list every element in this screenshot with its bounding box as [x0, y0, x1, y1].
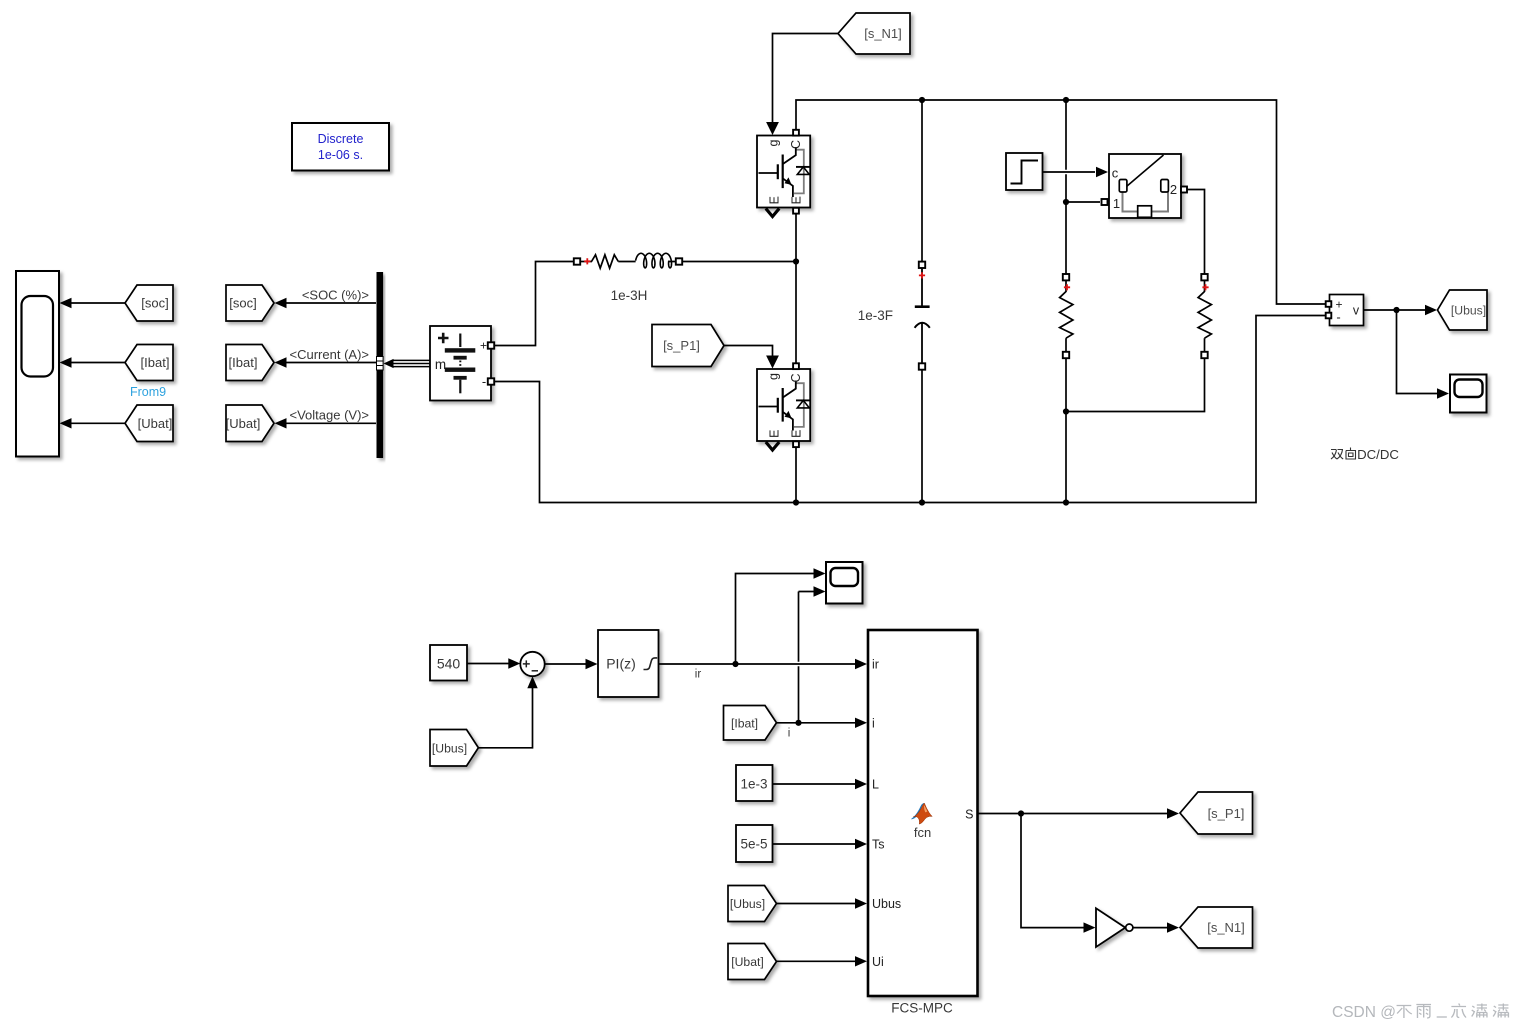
svg-text:1: 1: [1113, 196, 1120, 211]
svg-text:[Ibat]: [Ibat]: [731, 716, 758, 730]
goto tag [Ibat]: [226, 345, 274, 381]
wire: resistor 2 bottom return: [1066, 358, 1205, 412]
wire: resistor branch 1 vertical: [1065, 100, 1067, 274]
bus selector bar: [377, 272, 384, 458]
resistor R2: [1201, 274, 1207, 280]
port: V+: [1326, 301, 1332, 307]
svg-text:[Ibat]: [Ibat]: [141, 355, 170, 370]
capacitor 1e-3F: [919, 262, 925, 268]
svg-text:fcn: fcn: [914, 825, 931, 840]
svg-text:<Voltage (V)>: <Voltage (V)>: [290, 407, 370, 422]
from tag [s_P1] (drives lower IGBT): [652, 325, 724, 367]
wire: upper IGBT C to top bus: [796, 100, 1325, 304]
wire: [Ubus] to sum minus input: [478, 686, 532, 748]
port: lower IGBT E: [793, 441, 799, 447]
svg-text:m: m: [435, 357, 446, 372]
transistor lower IGBT/Diode: [757, 369, 811, 441]
svg-text:[Ubus]: [Ubus]: [432, 741, 467, 755]
node: i junction: [795, 720, 801, 726]
svg-text:Ubus: Ubus: [872, 897, 901, 911]
wire: from [s_N1] to upper IGBT gate: [773, 34, 839, 125]
svg-text:[s_P1]: [s_P1]: [663, 338, 700, 353]
wire: RL branch to half-bridge midpoint: [683, 261, 796, 263]
wire: to bus voltage scope: [1397, 310, 1440, 394]
goto tag [s_N1]: [1180, 907, 1253, 948]
svg-text:[Ubat]: [Ubat]: [138, 416, 173, 431]
svg-text:Discrete: Discrete: [318, 132, 364, 146]
logic NOT gate: [1096, 908, 1125, 947]
wire: ir branch to scope: [736, 574, 816, 665]
wire: [Ubat] to FCS-MPC Ui: [777, 960, 858, 962]
node: resistor return junction: [1063, 408, 1069, 414]
svg-text:[Ibat]: [Ibat]: [229, 355, 258, 370]
battery block: [430, 326, 491, 401]
wire: i branch to scope: [799, 591, 816, 593]
from tag [Ibat] (current feedback): [724, 706, 777, 741]
wire: lower IGBT E to bottom bus: [795, 447, 797, 503]
svg-text:[soc]: [soc]: [229, 296, 256, 311]
from tag [Ubat] (to controller): [728, 944, 777, 980]
svg-text:i: i: [788, 728, 791, 740]
wire: step to breaker control (with white casing over crossing): [1043, 170, 1096, 175]
from tag [s_N1] (top): [838, 13, 910, 54]
goto tag [soc]: [226, 285, 274, 321]
wire: [Ibat] i branch vertical (under ir wire): [798, 592, 800, 723]
constant 1e-3: [736, 765, 773, 801]
svg-text:<SOC (%)>: <SOC (%)>: [302, 288, 369, 303]
scope Scope (bus voltage): [1450, 375, 1487, 413]
wire: battery plus to inductor branch: [491, 262, 573, 346]
node: top bus resistor tap: [1063, 97, 1069, 103]
scope Scope1 (battery signals): [16, 271, 59, 457]
resistor R1: [1063, 274, 1069, 280]
wire: bus selector to goto [Ibat]: [284, 362, 376, 364]
wire: S branch to NOT gate: [1021, 814, 1085, 928]
step source block: [1006, 153, 1043, 190]
MATLAB function block FCS-MPC: [868, 630, 978, 996]
svg-text:ir: ir: [695, 669, 702, 681]
discrete powergui block: [292, 123, 389, 171]
svg-text:Ts: Ts: [872, 838, 885, 852]
wire: from [Ibat] to scope: [70, 362, 125, 364]
svg-text:c: c: [1112, 166, 1119, 181]
svg-text:Ui: Ui: [872, 955, 884, 969]
node: bottom bus resistor tap: [1063, 499, 1069, 505]
svg-text:[Ubus]: [Ubus]: [1451, 304, 1486, 318]
wire: 5e-5 to FCS-MPC Ts: [773, 843, 858, 845]
PI controller block: [598, 630, 659, 697]
svg-text:[Ubat]: [Ubat]: [731, 955, 764, 969]
wire: [Ibat] to FCS-MPC i: [777, 722, 858, 724]
wire: capacitor branch bottom: [921, 369, 923, 503]
wire: breaker input tap: [1066, 201, 1100, 203]
svg-text:5e-5: 5e-5: [740, 837, 767, 852]
svg-text:1e-3F: 1e-3F: [858, 308, 893, 323]
constant 5e-5: [736, 825, 773, 862]
svg-text:From9: From9: [130, 385, 166, 399]
scope Scope (ir and i): [826, 562, 863, 604]
goto tag [Ubat]: [226, 405, 274, 442]
svg-text:1e-3H: 1e-3H: [611, 288, 648, 303]
svg-text:-: -: [482, 374, 486, 389]
voltage measurement block: [1330, 295, 1364, 326]
from tag [Ubat] (to scope): [125, 405, 173, 442]
port: battery +: [488, 342, 494, 348]
upper IGBT unconnected m port chevron: [766, 209, 779, 217]
node: ir junction: [732, 661, 738, 667]
constant 540: [430, 645, 467, 681]
bus selector input marker: [377, 357, 384, 371]
port: breaker 2: [1181, 187, 1187, 193]
sum block: [520, 652, 544, 676]
node: Ubus output junction: [1393, 307, 1399, 313]
svg-text:DC/DC: DC/DC: [1357, 447, 1399, 462]
wire: FCS-MPC S output to [s_P1]: [978, 813, 1170, 815]
series RL branch 1e-3H: [574, 258, 580, 264]
wire: NOT gate to [s_N1]: [1133, 927, 1169, 929]
port: breaker 1: [1102, 199, 1108, 205]
node: bottom bus at half-bridge: [793, 499, 799, 505]
wire: voltage measurement output: [1364, 309, 1428, 311]
from tag [Ibat] (to scope): [125, 345, 173, 381]
svg-text:[Ubat]: [Ubat]: [226, 416, 261, 431]
wire: [Ubus] to FCS-MPC Ubus: [777, 903, 858, 905]
transistor upper IGBT/Diode: [757, 136, 811, 208]
port: lower IGBT C: [793, 363, 799, 369]
watermark CSDN: [1332, 1004, 1396, 1021]
from tag [soc] (to scope): [125, 285, 173, 321]
svg-text:[s_N1]: [s_N1]: [864, 26, 902, 41]
svg-text:PI(z): PI(z): [606, 656, 636, 672]
svg-text:<Current (A)>: <Current (A)>: [290, 347, 369, 362]
svg-text:[Ubus]: [Ubus]: [730, 897, 765, 911]
port: upper IGBT C: [793, 130, 799, 136]
svg-text:[s_N1]: [s_N1]: [1207, 920, 1245, 935]
svg-text:+: +: [480, 339, 487, 353]
wire: from [Ubat] to scope: [70, 422, 125, 424]
wire: capacitor branch top: [921, 100, 923, 262]
breaker block: [1109, 154, 1181, 218]
svg-text:S: S: [965, 807, 973, 821]
svg-text:L: L: [872, 778, 879, 792]
svg-text:-: -: [1336, 310, 1340, 325]
svg-text:ir: ir: [872, 658, 879, 672]
MATLAB logo: [911, 803, 925, 819]
wire: 540 to sum: [467, 663, 510, 665]
node: top bus capacitor tap: [919, 97, 925, 103]
wire: bus selector to goto [Ubat]: [284, 422, 376, 424]
svg-text:[s_P1]: [s_P1]: [1208, 806, 1245, 821]
label bidirectional DC/DC (Chinese): [1331, 448, 1356, 460]
from tag [Ubus] (reference compare): [430, 730, 478, 767]
port: battery -: [488, 378, 494, 384]
lower IGBT unconnected m port chevron: [766, 442, 779, 450]
node: breaker tap junction: [1063, 199, 1069, 205]
wire: sum to PI: [545, 663, 587, 665]
svg-text:2: 2: [1170, 182, 1177, 197]
node: bottom bus capacitor tap: [919, 499, 925, 505]
wire: battery m to bus selector (3-line bus): [392, 359, 430, 361]
node: S junction: [1018, 810, 1024, 816]
wire: 1e-3 to FCS-MPC L: [773, 783, 858, 785]
svg-text:1e-06 s.: 1e-06 s.: [318, 148, 363, 162]
port: V-: [1326, 313, 1332, 319]
wire: from [soc] to scope: [70, 302, 125, 304]
wire: breaker output to resistor 2: [1187, 190, 1205, 275]
node: midpoint junction: [793, 258, 799, 264]
svg-text:1e-3: 1e-3: [740, 777, 767, 792]
wire: battery minus to bottom bus: [491, 316, 1325, 503]
goto tag [Ubus]: [1438, 290, 1488, 330]
svg-text:FCS-MPC: FCS-MPC: [891, 1001, 953, 1016]
svg-text:540: 540: [437, 656, 461, 672]
svg-text:[soc]: [soc]: [141, 296, 168, 311]
svg-text:i: i: [872, 716, 875, 730]
wire: half-bridge vertical (upper IGBT E to lower IGBT C): [795, 214, 797, 363]
wire: PI output to FCS-MPC ir: [790, 662, 807, 667]
from tag [Ubus] (to controller): [728, 886, 777, 922]
svg-text:v: v: [1353, 304, 1360, 318]
port: upper IGBT E: [793, 208, 799, 214]
goto tag [s_P1]: [1180, 792, 1253, 834]
svg-text:CSDN @: CSDN @: [1332, 1004, 1396, 1021]
wire: from [s_P1] to lower IGBT gate: [724, 346, 773, 359]
wire: bus selector to goto [soc]: [284, 302, 376, 304]
